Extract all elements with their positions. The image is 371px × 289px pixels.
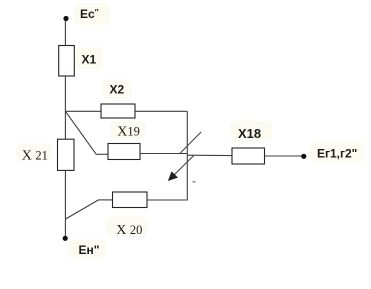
stray dash mark (193, 181, 196, 183)
wire into X19 (96, 153, 108, 155)
wire into X20 (99, 199, 113, 201)
resistor X1 (59, 46, 75, 77)
wire X2 to right rail (135, 110, 187, 112)
svg-text:X19: X19 (117, 125, 140, 140)
wire X18 to terminal (265, 155, 302, 157)
wire diagonal from bottom rail to X20 (66, 200, 99, 219)
svg-text:X18: X18 (238, 126, 261, 141)
node En" terminal dot (63, 236, 68, 241)
resistor X19 (108, 144, 140, 160)
wire X20 to right rail (147, 199, 187, 201)
node Er1,r2" terminal dot (301, 154, 306, 159)
resistor X21 (58, 139, 75, 170)
variability arrow lower stroke with head (172, 155, 194, 177)
svg-text:X1: X1 (82, 53, 97, 67)
svg-text:Ег1,г2": Ег1,г2" (317, 146, 357, 160)
wire X19 to crossing (140, 153, 187, 155)
svg-text:X2: X2 (110, 82, 125, 96)
svg-text:Eн": Eн" (79, 243, 100, 257)
wire X21 to En" (64, 170, 66, 236)
resistor X18 (232, 148, 265, 164)
wire crossing to X18 (187, 154, 232, 156)
resistor X20 (113, 192, 148, 208)
node Ec" terminal dot (63, 16, 68, 21)
svg-text:X 21: X 21 (22, 149, 48, 164)
arrowhead (168, 171, 178, 181)
resistor X2 (101, 104, 135, 118)
wire right rail vertical (186, 111, 188, 200)
wire diagonal node A to X19 (66, 112, 97, 155)
svg-text:X 20: X 20 (116, 223, 142, 238)
wire from X1 to X21 (through node A) (64, 76, 66, 139)
variability arrow upper stroke (180, 132, 201, 154)
wire node A to X2 (65, 110, 101, 112)
wire from Ec" to X1 (64, 21, 66, 46)
